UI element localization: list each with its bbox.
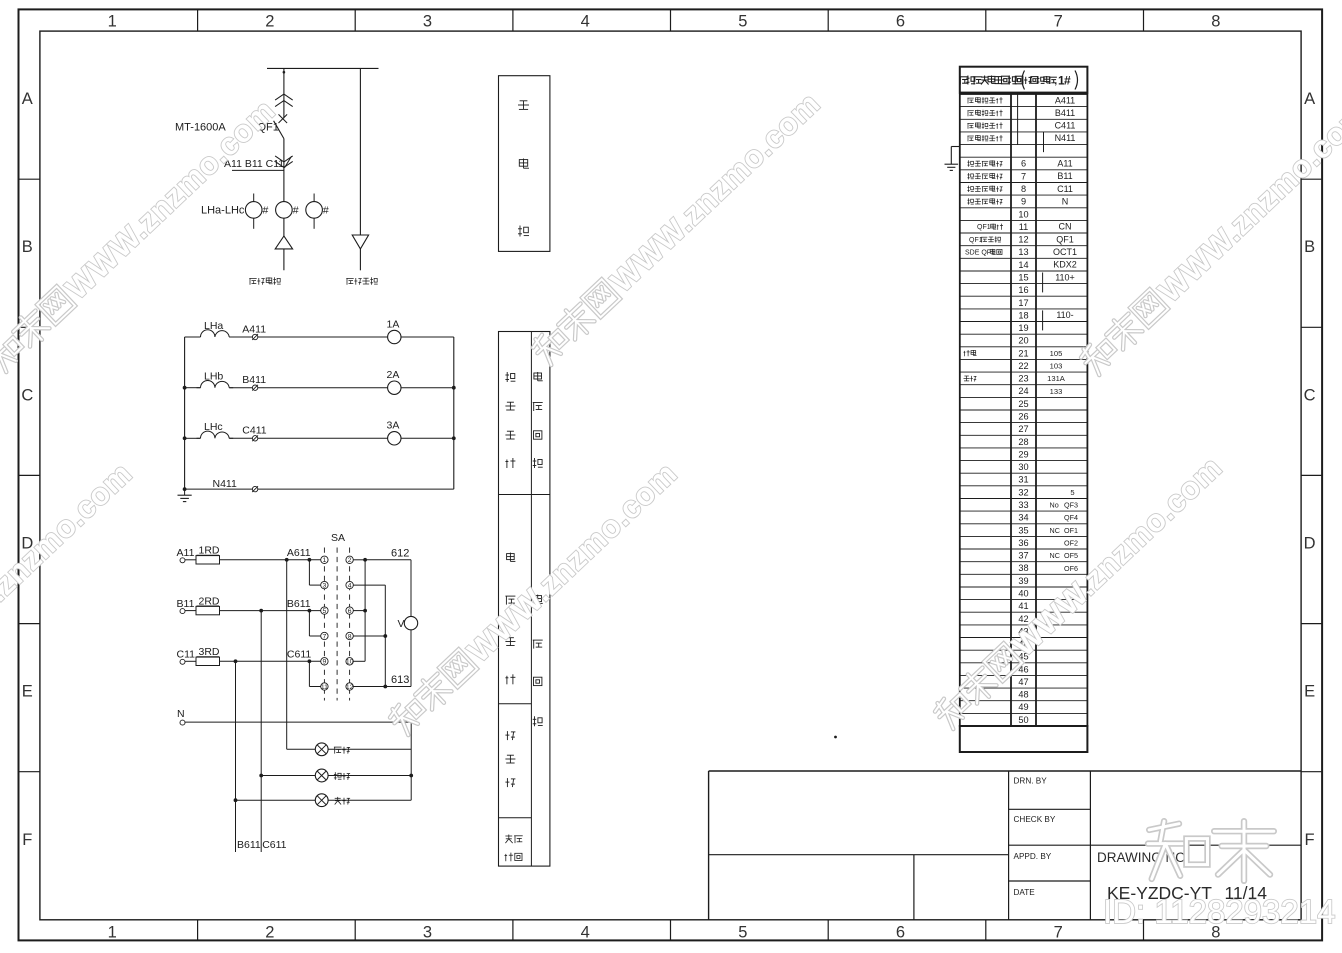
wire contact6 stub bbox=[353, 610, 365, 612]
svg-text:19: 19 bbox=[1018, 323, 1028, 333]
svg-text:7: 7 bbox=[1054, 13, 1063, 31]
wire A611 bbox=[220, 547, 321, 560]
svg-text:LHa: LHa bbox=[204, 320, 223, 332]
switch SA contact 12 bbox=[346, 683, 354, 691]
watermark diagonal 1 bbox=[0, 92, 282, 376]
svg-text:7: 7 bbox=[1021, 171, 1026, 181]
title block frame bbox=[709, 771, 1302, 920]
terminal description labels bbox=[964, 97, 1004, 381]
svg-text:105: 105 bbox=[1050, 349, 1063, 358]
wire 612 bbox=[365, 547, 411, 560]
label A11 B11 C11 bbox=[224, 158, 284, 171]
fuse 1RD bbox=[185, 545, 220, 565]
svg-text:38: 38 bbox=[1018, 563, 1028, 573]
bus right current circuit bbox=[453, 337, 455, 489]
wire 613 contact12 bbox=[353, 674, 411, 686]
node A611 SA tap bbox=[308, 558, 312, 562]
svg-text:#: # bbox=[263, 205, 269, 217]
watermark diagonal 3 bbox=[1077, 95, 1342, 379]
label N411 bbox=[213, 478, 237, 490]
current transformer LHa primary bbox=[245, 194, 268, 229]
svg-text:31: 31 bbox=[1018, 475, 1028, 485]
svg-text:QF3: QF3 bbox=[1064, 501, 1078, 510]
svg-text:8: 8 bbox=[1021, 184, 1026, 194]
svg-text:C: C bbox=[1304, 386, 1316, 404]
wire B611 bbox=[220, 598, 321, 611]
svg-text:3: 3 bbox=[423, 924, 432, 942]
svg-text:A11: A11 bbox=[177, 547, 195, 559]
svg-text:35: 35 bbox=[1018, 525, 1028, 535]
svg-text:C11: C11 bbox=[177, 649, 196, 661]
label B411 bbox=[242, 374, 266, 386]
svg-text:133: 133 bbox=[1050, 387, 1063, 396]
breaker QF1 fixed contact X bbox=[279, 114, 288, 123]
svg-text:1: 1 bbox=[108, 924, 117, 942]
svg-text:7: 7 bbox=[323, 633, 327, 640]
svg-text:18: 18 bbox=[1018, 310, 1028, 320]
svg-text:34: 34 bbox=[1018, 513, 1028, 523]
svg-text:6: 6 bbox=[896, 924, 905, 942]
svg-text:3: 3 bbox=[323, 582, 327, 589]
lamp HD3 yellow bbox=[315, 794, 350, 807]
svg-text:2: 2 bbox=[265, 13, 274, 31]
switch SA contact 7 bbox=[321, 632, 328, 640]
lamp HD1 red bbox=[315, 743, 350, 756]
svg-text:NC: NC bbox=[1050, 526, 1060, 535]
svg-text:36: 36 bbox=[1018, 538, 1028, 548]
wire branch to SA contact 7 bbox=[309, 611, 320, 636]
svg-text:B411: B411 bbox=[242, 374, 266, 386]
stray dot bbox=[834, 736, 837, 739]
terminal C11 bbox=[177, 649, 196, 665]
svg-text:LHa-LHc: LHa-LHc bbox=[201, 205, 245, 217]
terminal link 110- bbox=[1042, 310, 1044, 330]
svg-text:11: 11 bbox=[321, 684, 328, 691]
wire branch to SA contact 11 bbox=[309, 661, 320, 686]
svg-text:48: 48 bbox=[1018, 690, 1028, 700]
bus left current circuit bbox=[184, 337, 186, 489]
label DATE bbox=[1014, 888, 1036, 897]
wire N411 row bbox=[183, 487, 454, 491]
svg-text:6: 6 bbox=[896, 13, 905, 31]
wire N row bbox=[185, 721, 411, 723]
svg-text:1: 1 bbox=[323, 557, 327, 564]
label current loop bbox=[533, 372, 543, 468]
label SA bbox=[331, 532, 345, 544]
svg-text:9: 9 bbox=[323, 659, 327, 666]
svg-text:A: A bbox=[22, 90, 33, 108]
svg-text:23: 23 bbox=[1018, 374, 1028, 384]
svg-text:26: 26 bbox=[1018, 412, 1028, 422]
label metering instruments bbox=[505, 372, 515, 468]
drawing number KE-YZDC-YT 11/14 bbox=[1107, 883, 1267, 903]
svg-text:15: 15 bbox=[1018, 273, 1028, 283]
svg-text:20: 20 bbox=[1018, 336, 1028, 346]
svg-text:41: 41 bbox=[1018, 601, 1028, 611]
node C411 right bbox=[452, 436, 456, 440]
label B611 bottom bbox=[237, 839, 261, 851]
svg-text:B: B bbox=[22, 238, 33, 256]
svg-text:13: 13 bbox=[1018, 247, 1028, 257]
terminal link 110+ bbox=[1042, 273, 1044, 293]
svg-text:1A: 1A bbox=[387, 318, 400, 330]
terminal symbol N411 bbox=[252, 486, 258, 492]
svg-text:F: F bbox=[1305, 831, 1315, 849]
switch SA dashed link lines bbox=[324, 548, 349, 701]
svg-text:NC: NC bbox=[1050, 551, 1060, 560]
label A411 bbox=[242, 323, 266, 335]
svg-text:QF1: QF1 bbox=[977, 224, 991, 231]
feeder arrow down bbox=[352, 235, 368, 249]
box main-circuit legend bbox=[499, 76, 550, 252]
switch SA contact 3 bbox=[321, 581, 328, 589]
terminal B11 bbox=[177, 598, 195, 614]
svg-text:39: 39 bbox=[1018, 576, 1028, 586]
svg-text:613: 613 bbox=[391, 674, 409, 686]
terminal A11 bbox=[177, 547, 195, 563]
svg-text:16: 16 bbox=[1018, 285, 1028, 295]
label APPD BY bbox=[1014, 852, 1052, 861]
terminal symbol C411 bbox=[252, 435, 258, 441]
svg-text:32: 32 bbox=[1018, 487, 1028, 497]
wire B411 row bbox=[185, 387, 454, 389]
wire contact8 stub bbox=[353, 635, 385, 637]
svg-text:110+: 110+ bbox=[1055, 272, 1075, 282]
svg-text:#: # bbox=[323, 205, 329, 217]
label incoming oil-generator line bbox=[249, 277, 280, 284]
wire lamp row bbox=[261, 775, 411, 777]
svg-text:No: No bbox=[1050, 501, 1059, 510]
feeder arrow up bbox=[275, 236, 292, 249]
svg-text:8: 8 bbox=[348, 633, 352, 640]
svg-text:E: E bbox=[1304, 683, 1315, 701]
current transformer LHc primary bbox=[306, 194, 329, 229]
svg-text:5: 5 bbox=[738, 924, 747, 942]
wire C611 bbox=[220, 649, 321, 662]
svg-text:21: 21 bbox=[1018, 348, 1028, 358]
node B411 right bbox=[452, 386, 456, 390]
label outgoing oil-generator line bbox=[346, 277, 377, 284]
ammeter 1A bbox=[387, 318, 401, 343]
svg-text:49: 49 bbox=[1018, 702, 1028, 712]
svg-text:V: V bbox=[398, 618, 405, 630]
svg-text:A411: A411 bbox=[242, 323, 266, 335]
svg-text:QF1: QF1 bbox=[969, 237, 983, 244]
wire branch to SA contact 3 bbox=[309, 560, 320, 585]
svg-text:OCT1: OCT1 bbox=[1053, 247, 1077, 257]
svg-text:8: 8 bbox=[1211, 13, 1220, 31]
svg-text:40: 40 bbox=[1018, 589, 1028, 599]
svg-text:10: 10 bbox=[1018, 209, 1028, 219]
svg-text:APPD. BY: APPD. BY bbox=[1014, 852, 1052, 861]
wire contact2 to node 612 bbox=[353, 559, 365, 561]
node C611 SA tap bbox=[308, 659, 312, 663]
wire A411 row bbox=[185, 336, 454, 338]
switch SA contact 5 bbox=[321, 607, 328, 615]
svg-text:CN: CN bbox=[1059, 222, 1072, 232]
voltmeter V bbox=[398, 560, 418, 687]
wire C411 row bbox=[185, 437, 454, 439]
svg-text:C411: C411 bbox=[242, 425, 266, 437]
wire contact10 stub bbox=[353, 660, 365, 662]
svg-text:A411: A411 bbox=[1055, 95, 1075, 105]
svg-text:50: 50 bbox=[1018, 715, 1028, 725]
svg-text:B611: B611 bbox=[287, 598, 311, 610]
svg-text:1: 1 bbox=[108, 13, 117, 31]
svg-text:24: 24 bbox=[1018, 386, 1028, 396]
svg-text:ID: 1128293214: ID: 1128293214 bbox=[1103, 893, 1335, 930]
wire lamp row bbox=[287, 748, 412, 750]
svg-text:#: # bbox=[293, 205, 299, 217]
label voltage loop bbox=[533, 595, 543, 727]
label undervoltage coil bbox=[505, 835, 523, 862]
terminal N bbox=[177, 708, 185, 725]
watermark diagonal 4 bbox=[0, 455, 139, 739]
switch SA contact 9 bbox=[321, 658, 328, 666]
svg-text:5: 5 bbox=[1070, 488, 1074, 497]
svg-text:QF1: QF1 bbox=[1056, 234, 1074, 244]
svg-text:47: 47 bbox=[1018, 677, 1028, 687]
terminal link rows1-4 bbox=[1017, 94, 1019, 145]
svg-text:9: 9 bbox=[1021, 197, 1026, 207]
wire C611 down bbox=[234, 661, 238, 852]
wire lamp row bbox=[236, 799, 412, 801]
svg-text:4: 4 bbox=[581, 924, 590, 942]
label main circuit vertical bbox=[518, 101, 529, 237]
svg-text:B: B bbox=[1304, 238, 1315, 256]
wire breaker to CT bbox=[283, 139, 285, 271]
fuse 2RD bbox=[185, 595, 220, 615]
svg-text:OF1: OF1 bbox=[1064, 526, 1078, 535]
svg-text:3: 3 bbox=[423, 13, 432, 31]
CT secondary LHc bbox=[197, 421, 234, 438]
label indicator lamps bbox=[505, 731, 515, 787]
svg-text:CHECK BY: CHECK BY bbox=[1014, 815, 1056, 824]
ammeter 3A bbox=[387, 420, 401, 445]
svg-text:11: 11 bbox=[1019, 222, 1029, 232]
drawout contact lower QF1 bbox=[275, 156, 293, 168]
svg-text:5: 5 bbox=[738, 13, 747, 31]
watermark zhimo logo large bbox=[1148, 821, 1274, 881]
fuse 3RD bbox=[185, 646, 220, 666]
svg-text:B611: B611 bbox=[237, 839, 261, 851]
wire B611 down bbox=[259, 611, 263, 852]
wire incoming feeder vertical bbox=[283, 68, 286, 118]
svg-text:22: 22 bbox=[1018, 361, 1028, 371]
node B411 left bbox=[183, 386, 187, 390]
svg-text:DRN. BY: DRN. BY bbox=[1014, 776, 1048, 785]
wire outgoing feeder vertical bbox=[359, 68, 361, 270]
svg-text:LHb: LHb bbox=[204, 371, 223, 383]
svg-text:6: 6 bbox=[1021, 159, 1026, 169]
svg-text:612: 612 bbox=[391, 547, 409, 559]
switch SA contact 6 bbox=[346, 607, 353, 615]
svg-text:B11: B11 bbox=[177, 598, 195, 610]
terminal link N411 bbox=[1043, 132, 1045, 152]
svg-text:12: 12 bbox=[1018, 235, 1028, 245]
svg-text:29: 29 bbox=[1018, 449, 1028, 459]
drawout contact upper QF1 bbox=[275, 94, 293, 107]
svg-text:27: 27 bbox=[1018, 424, 1028, 434]
node B611 SA tap bbox=[308, 609, 312, 613]
svg-text:OF5: OF5 bbox=[1064, 551, 1078, 560]
terminal wire labels bbox=[1053, 95, 1077, 320]
ground terminal strip bbox=[945, 147, 960, 171]
svg-text:A11: A11 bbox=[1057, 159, 1072, 169]
wire A611 down to lamp HD1 bbox=[286, 560, 288, 750]
node C411 left bbox=[183, 436, 187, 440]
watermark ID number bbox=[1103, 893, 1335, 930]
switch SA contact 2 bbox=[346, 556, 353, 564]
svg-text:N411: N411 bbox=[1055, 133, 1076, 143]
wire contact4 branch bbox=[353, 584, 385, 586]
label C411 bbox=[242, 425, 266, 437]
node B611 lamp tap bbox=[259, 609, 263, 613]
lamp HD2 green bbox=[315, 769, 350, 782]
svg-text:F: F bbox=[22, 831, 32, 849]
terminal symbol A411 bbox=[252, 334, 258, 340]
svg-text:DATE: DATE bbox=[1014, 888, 1036, 897]
svg-text:QF4: QF4 bbox=[1064, 513, 1078, 522]
svg-text:30: 30 bbox=[1018, 462, 1028, 472]
svg-text:6: 6 bbox=[348, 608, 352, 615]
CT secondary LHb bbox=[197, 371, 234, 388]
svg-text:25: 25 bbox=[1018, 399, 1028, 409]
svg-text:LHc: LHc bbox=[204, 421, 223, 433]
switch SA contact 4 bbox=[346, 581, 353, 589]
svg-text:N: N bbox=[1062, 196, 1069, 206]
switch SA contact 11 bbox=[321, 683, 328, 691]
label QF1 bbox=[258, 122, 279, 134]
label CHECK BY bbox=[1014, 815, 1056, 824]
svg-text:4: 4 bbox=[581, 13, 590, 31]
current transformer LHb primary bbox=[276, 202, 299, 219]
svg-text:OF2: OF2 bbox=[1064, 539, 1078, 548]
terminal symbol B411 bbox=[252, 385, 258, 391]
svg-text:#: # bbox=[1064, 74, 1071, 88]
svg-text:3A: 3A bbox=[387, 420, 400, 432]
label C611 bottom bbox=[262, 839, 286, 851]
watermark diagonal 6 bbox=[931, 449, 1229, 733]
watermark diagonal 5 bbox=[386, 455, 684, 739]
terminal strip header bbox=[959, 67, 1087, 93]
svg-text:2: 2 bbox=[348, 557, 352, 564]
svg-text:14: 14 bbox=[1018, 260, 1028, 270]
terminal aux contact labels bbox=[1047, 349, 1078, 573]
label DRN BY bbox=[1014, 776, 1048, 785]
switch SA contact 8 bbox=[346, 632, 353, 640]
svg-text:5: 5 bbox=[323, 608, 327, 615]
terminal numbers 6-50 bbox=[1018, 159, 1028, 725]
label MT-1600A bbox=[175, 122, 226, 134]
box circuit-function legend bbox=[499, 332, 550, 867]
wire vertical 2-6-10 bbox=[363, 558, 367, 661]
svg-text:2A: 2A bbox=[387, 369, 400, 381]
ground current circuit bbox=[178, 489, 192, 502]
svg-text:A: A bbox=[1304, 90, 1315, 108]
CT secondary LHa bbox=[197, 320, 234, 337]
terminal strip grid bbox=[960, 94, 1088, 726]
label LHa-LHc bbox=[201, 205, 245, 217]
node A611 lamp tap bbox=[285, 558, 289, 562]
bus bar top bbox=[267, 67, 379, 69]
switch SA contact 10 bbox=[346, 658, 354, 666]
terminal strip footer box bbox=[960, 726, 1088, 752]
svg-text:103: 103 bbox=[1050, 362, 1063, 371]
svg-text:E: E bbox=[22, 683, 33, 701]
svg-text:A611: A611 bbox=[287, 547, 311, 559]
label DRAWING NO bbox=[1097, 850, 1190, 865]
svg-text:C: C bbox=[21, 386, 33, 404]
svg-text:110-: 110- bbox=[1056, 310, 1073, 320]
switch SA contact 1 bbox=[321, 556, 328, 564]
svg-text:17: 17 bbox=[1018, 298, 1028, 308]
svg-text:37: 37 bbox=[1018, 551, 1028, 561]
svg-text:D: D bbox=[1304, 535, 1316, 553]
svg-text:4: 4 bbox=[348, 582, 352, 589]
svg-text:B411: B411 bbox=[1055, 108, 1075, 118]
label voltage meters bbox=[505, 553, 515, 685]
wire N down to lamps bbox=[409, 722, 413, 800]
svg-text:C611: C611 bbox=[287, 649, 311, 661]
wire vertical 4-8-12 bbox=[383, 585, 387, 688]
svg-text:B11: B11 bbox=[1057, 171, 1072, 181]
ammeter 2A bbox=[387, 369, 401, 394]
svg-text:KDX2: KDX2 bbox=[1053, 260, 1077, 270]
node C611 lamp tap bbox=[234, 659, 238, 663]
svg-text:C411: C411 bbox=[1055, 121, 1076, 131]
svg-text:33: 33 bbox=[1018, 500, 1028, 510]
svg-text:10: 10 bbox=[346, 659, 354, 666]
svg-text:N411: N411 bbox=[213, 478, 237, 490]
breaker QF1 blade bbox=[274, 121, 284, 139]
svg-text:C611: C611 bbox=[262, 839, 286, 851]
svg-text:,: , bbox=[1055, 76, 1058, 86]
svg-text:12: 12 bbox=[346, 684, 354, 691]
svg-text:SA: SA bbox=[331, 532, 345, 544]
svg-text:C11: C11 bbox=[1057, 184, 1073, 194]
svg-text:28: 28 bbox=[1018, 437, 1028, 447]
svg-text:131A: 131A bbox=[1047, 374, 1066, 383]
svg-text:7: 7 bbox=[1054, 924, 1063, 942]
watermark diagonal 2 bbox=[529, 85, 827, 369]
svg-text:2: 2 bbox=[265, 924, 274, 942]
svg-text:N: N bbox=[177, 708, 185, 720]
